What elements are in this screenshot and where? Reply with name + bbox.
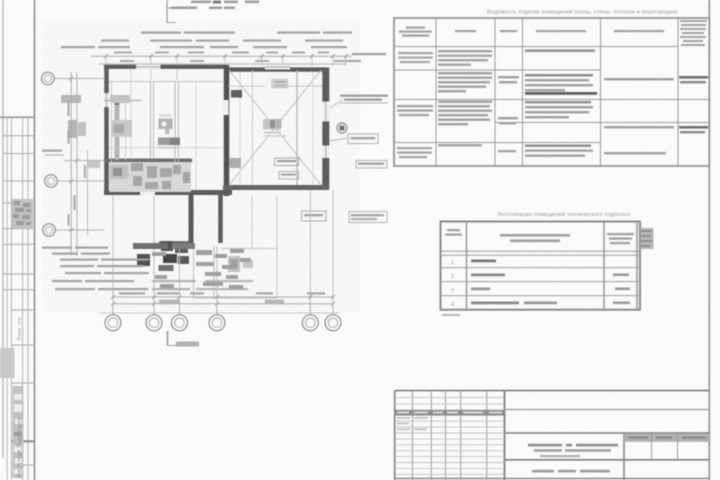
svg-text:Ведомость отделки помещений (п: Ведомость отделки помещений (полы, стены… <box>487 9 678 16</box>
axis bubble left A <box>42 72 55 85</box>
wall: internal left <box>104 159 192 163</box>
window gap right wall 1 <box>322 102 330 122</box>
axis bubble 4 <box>209 315 225 331</box>
title block right rows <box>505 409 710 411</box>
row 4 cell texts <box>397 144 666 158</box>
label box right room bottom <box>275 158 299 166</box>
left room vertical band <box>115 100 120 160</box>
left strip ladder top rung <box>0 116 35 118</box>
wall: top left segment <box>104 65 226 69</box>
ladder rungs <box>3 136 35 465</box>
below-plan scattered blobs <box>152 249 251 289</box>
left frame border <box>34 0 36 480</box>
rotated text strip lower <box>13 386 24 478</box>
bottom extension lines <box>113 190 333 313</box>
wall: porch bottom-left <box>159 241 191 246</box>
page right border <box>708 0 710 480</box>
right leader diagonals <box>330 100 342 108</box>
axis bubble 2 <box>146 315 162 331</box>
bubble3 leader <box>167 331 169 346</box>
left dim vertical 2 <box>76 72 78 256</box>
left outside dim boxes <box>61 95 81 103</box>
annotation texts above plan row3 <box>61 46 386 62</box>
below-left annotation rows <box>42 247 253 291</box>
axis bubble 5 <box>302 315 318 331</box>
left sheet edge line <box>2 0 4 458</box>
left leader label <box>45 154 64 156</box>
ladder vertical a <box>6 117 8 480</box>
ladder vertical b <box>11 117 13 480</box>
vent block symbol <box>159 119 173 130</box>
below-plan dark blob row <box>133 243 168 249</box>
left room horizontal line <box>104 100 141 102</box>
entrance steps dark blobs <box>161 241 173 251</box>
title block dark header band <box>395 410 505 416</box>
top leader line <box>166 0 168 23</box>
left dim connectors <box>54 79 104 231</box>
bottom dim line 2 <box>113 303 333 305</box>
ladder vertical c <box>22 117 24 480</box>
wall: left <box>104 65 109 194</box>
wall: right room bottom <box>223 185 329 190</box>
right bubble <box>337 123 347 133</box>
dark jamb blob <box>231 90 242 98</box>
axis bubble left C <box>43 224 56 237</box>
wall: porch left <box>189 194 194 246</box>
door gap middle wall <box>223 100 229 115</box>
top dimension line 2 <box>99 63 346 65</box>
door gap bottom wall <box>140 190 155 196</box>
svg-text:4: 4 <box>451 302 454 308</box>
right annotation 4 <box>349 212 387 223</box>
axis bubble 1 <box>105 315 121 331</box>
inner face line top <box>109 81 223 83</box>
axis bubble left B <box>45 175 58 188</box>
svg-text:2: 2 <box>451 274 454 280</box>
left dim ticks <box>69 77 79 233</box>
svg-text:Взам. инв.: Взам. инв. <box>17 316 23 340</box>
bathroom cluster blobs <box>131 163 190 189</box>
axis bubble 3 <box>172 315 188 331</box>
bottom dim number boxes row2 <box>159 300 180 304</box>
bottom dim ticks <box>111 295 335 306</box>
wall: porch right <box>218 194 223 243</box>
right annotation box 2 <box>348 134 378 144</box>
middle table row lines <box>441 268 641 296</box>
porch fixtures <box>228 256 240 272</box>
partition pair B <box>174 81 176 191</box>
wall: top right segment <box>224 67 329 71</box>
inner face line left <box>111 81 113 190</box>
window gap top wall 1 <box>136 65 161 70</box>
middle table header double line <box>441 250 641 252</box>
table column lines <box>436 18 678 166</box>
bathroom base wash <box>109 162 191 192</box>
window gap top wall 2 <box>265 65 290 70</box>
middle table columns <box>467 222 638 310</box>
bottom dim numbers row1 <box>119 292 325 294</box>
right room diagonal 1 <box>229 70 321 185</box>
porch interior lines <box>193 246 195 298</box>
left dim vertical 3 <box>87 150 89 235</box>
bottom dim line 3 <box>100 312 340 314</box>
left page edge gray block <box>0 348 15 378</box>
top dimension line 1 <box>91 55 352 57</box>
left rotated dim texts <box>68 100 87 226</box>
ladder vertical d <box>27 117 29 480</box>
left grid small cell texts <box>397 417 428 430</box>
project name text <box>528 444 618 457</box>
page bottom border <box>394 478 710 480</box>
table header cell texts <box>399 20 707 46</box>
bottom dim line 1 <box>113 296 333 298</box>
axis bubble 6 <box>325 315 341 331</box>
wall: right <box>322 68 329 190</box>
interior riser lines <box>131 70 313 190</box>
stage header band <box>624 434 709 442</box>
small note below middle table <box>442 314 460 316</box>
title block left border <box>394 391 396 480</box>
partition pair A <box>150 81 152 158</box>
right room symbol cluster <box>263 119 281 130</box>
annotation texts above plan row2 <box>101 40 343 42</box>
middle table outer border <box>441 222 641 310</box>
left wall fixtures <box>110 95 130 103</box>
top leader label <box>171 1 259 10</box>
dark spot on band <box>115 102 120 106</box>
right annotation 3 <box>356 161 387 169</box>
middle table data rows <box>451 260 454 308</box>
title block left grid rows <box>395 398 505 475</box>
window gap right wall 2 <box>322 146 330 159</box>
top dim tick marks <box>104 54 348 58</box>
wall: middle vertical <box>224 65 230 196</box>
top dim numbers <box>114 52 344 63</box>
svg-text:1: 1 <box>451 260 454 266</box>
svg-text:Инв. N подл. Подп. и дата: Инв. N подл. Подп. и дата <box>17 418 23 478</box>
table outer border <box>394 18 709 166</box>
ladder hatched block <box>12 199 33 229</box>
annotation texts above plan row1 <box>141 32 352 34</box>
row 1 cell texts <box>398 50 595 66</box>
right room diagonal 2 <box>229 70 321 185</box>
dark label band below vent <box>158 138 180 146</box>
title block top border <box>395 390 710 392</box>
svg-text:3: 3 <box>451 288 454 294</box>
row 2 cell texts <box>438 72 708 92</box>
window gap left wall <box>104 93 109 107</box>
ladder dark rung <box>12 440 35 442</box>
top dimension risers <box>106 54 346 80</box>
right room inner face <box>229 85 323 87</box>
right room vertical line <box>296 70 298 185</box>
title block left grid verticals <box>412 391 486 480</box>
sheet name text <box>532 470 610 473</box>
bubble stubs <box>113 304 333 315</box>
window recess right room <box>265 73 287 87</box>
blob right of middle wall bottom <box>229 158 241 168</box>
label box right room top <box>272 80 288 88</box>
faint interior horizontal line <box>109 147 223 149</box>
left dim vertical 1 <box>70 72 72 256</box>
stage column divider <box>623 433 625 480</box>
right annotation text 1 <box>340 95 388 101</box>
svg-text:Экспликация помещений техничес: Экспликация помещений технического подпо… <box>497 211 630 218</box>
table row lines <box>394 47 709 143</box>
plan noise overlay <box>42 22 360 312</box>
wall: left bottom <box>104 190 232 195</box>
annex label box <box>302 211 327 221</box>
row 3 cell texts <box>397 92 708 133</box>
right room vertical faint <box>252 70 254 185</box>
title block main divider <box>504 391 506 480</box>
middle table header texts <box>445 228 654 249</box>
